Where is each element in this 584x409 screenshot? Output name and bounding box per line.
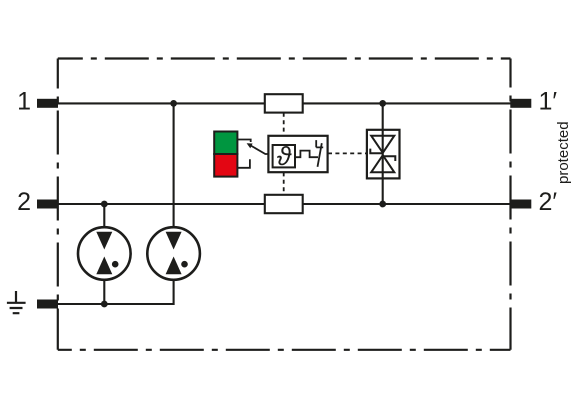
G1 lower arrow (up): [96, 257, 112, 275]
svg-text:ϑ: ϑ: [277, 141, 292, 171]
device outline dash-dot border right: [509, 59, 511, 350]
TVS zener bar right: [383, 156, 396, 161]
svg-text:2′: 2′: [539, 188, 558, 216]
svg-text:2: 2: [17, 188, 31, 216]
G2 dot: [181, 261, 188, 268]
junction dot line2/TVS branch: [379, 201, 386, 208]
thermal sensor inner box: [273, 145, 295, 167]
junction dot line1/G2 branch: [170, 100, 177, 107]
dashed link thermal monitor to R2: [283, 172, 285, 194]
device outline dash-dot border bottom: [58, 349, 511, 351]
G1 dot: [112, 261, 119, 268]
TVS lower triangle: [371, 155, 394, 172]
switch blade with arrow: [250, 145, 268, 154]
TVS branch wire inside box: [382, 130, 384, 179]
svg-text:1: 1: [17, 88, 31, 116]
svg-text:1′: 1′: [539, 88, 558, 116]
wire PE bottom line: [58, 303, 174, 305]
TVS upper triangle: [371, 136, 394, 153]
TVS zener bar left: [370, 149, 383, 154]
wire line 1 (terminal 1 to 1'): [58, 102, 511, 104]
terminal 1 pad: [37, 99, 58, 108]
wire vertical TVS branch: [382, 103, 384, 204]
thermal disconnector box U1: [268, 136, 327, 172]
junction dot line1/TVS branch: [379, 100, 386, 107]
svg-text:protected: protected: [555, 121, 572, 184]
wire line 2 (terminal 2 to 2'): [58, 203, 511, 205]
wire line 2 to gas discharge tube G1: [103, 204, 105, 233]
device outline dash-dot border top: [58, 57, 511, 59]
status indicator red square: [214, 154, 237, 177]
status indicator green square: [214, 132, 237, 155]
pulse waveform: [295, 151, 318, 158]
TVS suppressor diode box V1: [367, 130, 400, 179]
junction dot PE/G1 branch: [101, 301, 108, 308]
wire vertical line 1 to gas discharge tube G2: [173, 103, 175, 233]
ground symbol: [7, 291, 26, 313]
resistor R2 (decoupling element in line 2): [265, 195, 303, 213]
resistor R1 (decoupling element in line 1): [265, 94, 303, 112]
terminal 1' pad: [510, 99, 531, 108]
junction dot line2/G1 branch: [101, 201, 108, 208]
gas discharge tube G2 circle: [147, 227, 200, 280]
terminal PE pad: [37, 300, 58, 309]
switch upper contact stub: [237, 140, 250, 143]
dashed link thermal monitor to TVS diode: [328, 152, 367, 154]
release switch symbol: [316, 140, 323, 167]
terminal 2' pad: [510, 200, 531, 209]
dashed link R1 to thermal monitor: [283, 113, 285, 136]
wire G2 bottom lead to PE: [173, 274, 175, 306]
switch lower contact stub: [237, 159, 250, 168]
device outline dash-dot border left: [57, 59, 59, 350]
wire G1 bottom lead to PE: [103, 274, 105, 305]
terminal 2 pad: [37, 200, 58, 209]
G2 lower arrow (up): [166, 257, 182, 275]
gas discharge tube G1 circle: [78, 227, 131, 280]
G2 upper arrow (down): [166, 232, 182, 250]
G1 upper arrow (down): [96, 232, 112, 250]
